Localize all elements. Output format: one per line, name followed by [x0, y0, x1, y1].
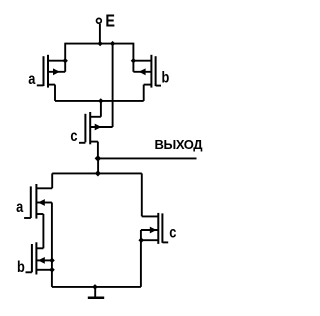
transistor b (PMOS, top-right) — [133, 55, 161, 88]
svg-text:b: b — [17, 259, 25, 277]
arrow nmos c substrate — [150, 227, 157, 234]
node dot b source — [49, 267, 55, 273]
node dot output — [95, 155, 102, 162]
node dot ground — [92, 284, 98, 290]
arrow pmos a substrate — [53, 68, 60, 75]
wire a source drop — [54, 85, 56, 101]
node dot mid rail c drain — [98, 98, 103, 103]
svg-text:E: E — [105, 11, 115, 31]
wire left drop to nmos a — [51, 173, 53, 188]
terminal E — [97, 18, 102, 23]
wire b source drop to ground rail — [51, 260, 53, 287]
wire output line — [98, 157, 197, 159]
node dot b drain — [131, 58, 136, 63]
wire substrate feed E to c — [112, 44, 114, 127]
svg-text:a: a — [16, 199, 24, 217]
wire mid rail — [55, 100, 144, 102]
transistor b (NMOS, bottom-left lower) — [26, 242, 52, 274]
node dot a drain — [63, 58, 68, 63]
transistor a (PMOS, top-left) — [37, 55, 65, 88]
node dot nmos rail — [95, 170, 101, 176]
node dot top rail E — [97, 41, 102, 46]
svg-text:c: c — [70, 128, 77, 146]
svg-text:c: c — [169, 224, 176, 242]
svg-text:ВЫХОД: ВЫХОД — [155, 137, 204, 152]
arrow nmos b substrate — [38, 257, 45, 264]
wire c substrate drop — [140, 230, 142, 287]
node dot top rail substrate feed — [110, 41, 115, 46]
arrow pmos c substrate — [95, 124, 102, 131]
wire b source drop — [143, 85, 145, 101]
wire a-b source-drain link — [42, 214, 44, 248]
wire nmos rail — [52, 172, 142, 174]
wire left drop to a — [64, 43, 66, 61]
wire substrate chain a to b — [51, 203, 53, 261]
node dot b substrate — [49, 258, 55, 264]
arrow nmos a substrate — [38, 199, 45, 206]
transistor c (NMOS, bottom-right) — [141, 213, 168, 244]
wire c drain riser — [100, 101, 102, 117]
node dot nmos c source — [138, 237, 144, 243]
wire E to top rail — [99, 24, 101, 44]
svg-text:a: a — [28, 71, 36, 89]
wire output drop — [97, 158, 99, 173]
wire ground rail — [52, 286, 141, 288]
arrow pmos b substrate — [139, 68, 146, 75]
svg-text:b: b — [162, 69, 170, 87]
wire right drop to b — [132, 43, 134, 61]
transistor a (NMOS, bottom-left upper) — [24, 184, 52, 219]
ground — [94, 287, 96, 297]
wire c source to output node — [97, 142, 99, 159]
wire right drop to nmos c — [141, 173, 143, 216]
transistor c (PMOS, middle) — [79, 112, 113, 144]
wire top rail — [65, 43, 133, 45]
